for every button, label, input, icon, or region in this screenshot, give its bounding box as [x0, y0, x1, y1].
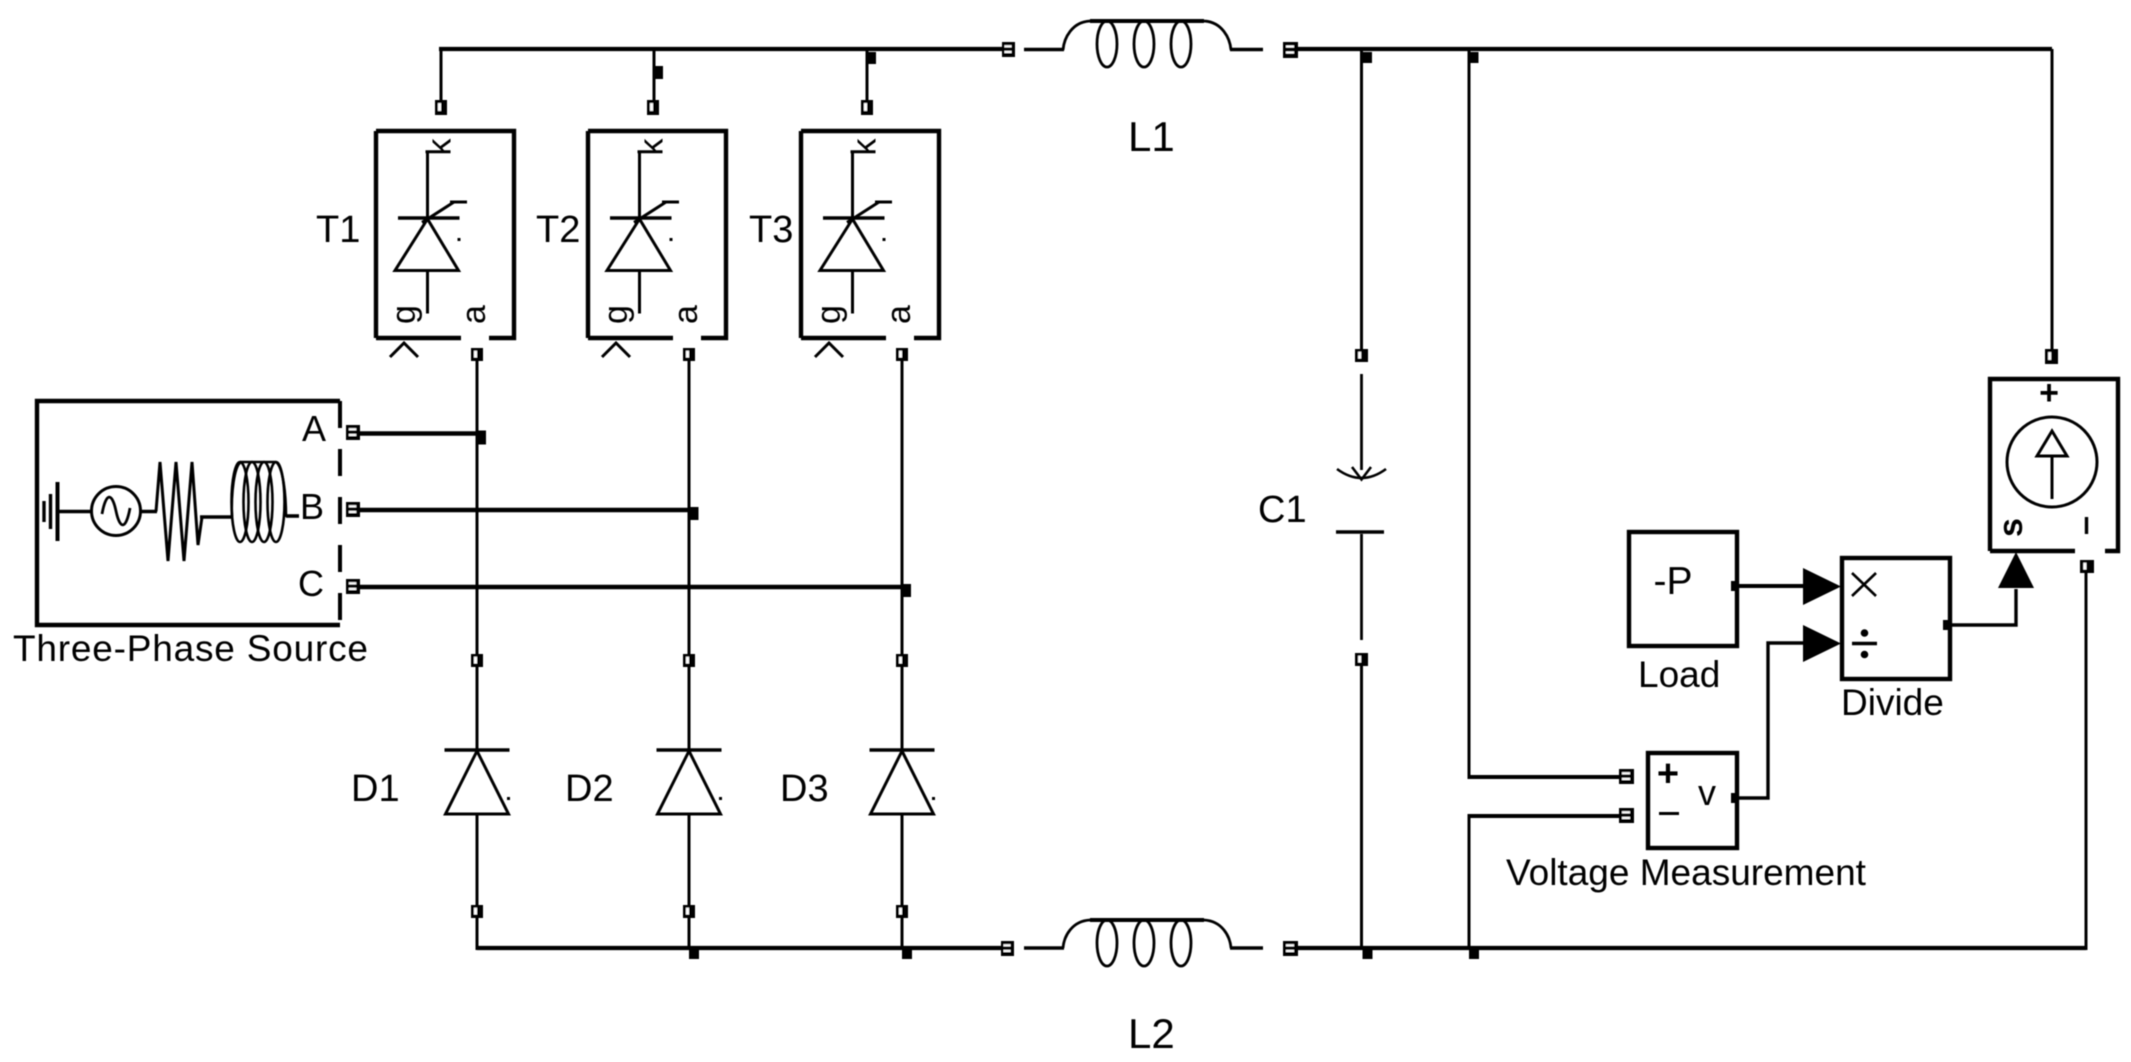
wire VM plus branch vertical: [1468, 51, 1471, 777]
wire bottom rail left segment: [477, 946, 1002, 950]
AC source circle: [92, 487, 141, 536]
inductor L1 right port: [1283, 42, 1298, 58]
controlled current source block: [1990, 374, 2118, 551]
wire VM plus branch horizontal: [1468, 775, 1620, 779]
node junction dot A: [477, 431, 486, 445]
svg-text:C1: C1: [1258, 489, 1307, 531]
svg-text:g: g: [385, 305, 423, 324]
wire bottom rail right segment: [1298, 946, 2086, 950]
three-phase source dashed right edge: [338, 401, 342, 625]
svg-text:+: +: [1657, 753, 1679, 795]
thyristor T3 top port: [861, 100, 873, 115]
wire top rail left segment: [439, 47, 1002, 51]
svg-text:Three-Phase Source: Three-Phase Source: [13, 628, 369, 669]
wire T3 top drop: [866, 49, 869, 100]
svg-text:a: a: [880, 305, 918, 324]
node junction dot bottom D3: [902, 948, 912, 959]
node junction dot bottom D2: [689, 948, 699, 959]
svg-text:D2: D2: [565, 768, 614, 810]
voltage measurement minus port: [1619, 808, 1634, 823]
wire phase B: [360, 508, 689, 512]
AC sine wave: [102, 497, 130, 525]
arrow into current source s input: [1998, 552, 2034, 588]
node junction dot VM top rail: [1470, 52, 1479, 63]
svg-text:g: g: [810, 305, 848, 324]
source port B: [346, 502, 360, 517]
svg-text:D3: D3: [780, 768, 829, 810]
node junction dot B: [689, 507, 699, 520]
svg-text:a: a: [455, 305, 493, 324]
thyristor T1 top port: [435, 100, 447, 115]
wire D3 to bottom rail: [901, 918, 904, 950]
wire D1 to bottom rail: [476, 918, 479, 950]
diode D2 top port: [683, 654, 695, 667]
arrow into divide divide input: [1803, 625, 1841, 662]
svg-text:a: a: [667, 305, 705, 324]
diode D2 bottom port: [683, 905, 695, 918]
inductor L2 coil: [1063, 920, 1231, 966]
arrow into divide x input: [1803, 568, 1841, 605]
svg-text:+: +: [2039, 374, 2059, 412]
thyristor T1: [376, 131, 514, 361]
inductor L1 left port: [1002, 42, 1015, 57]
node junction dot bottom C1: [1363, 948, 1373, 959]
node junction dot C: [902, 584, 911, 597]
svg-text:C: C: [298, 563, 324, 604]
wire drop to current source + port: [2051, 49, 2054, 349]
resistor zigzag: [156, 462, 202, 561]
svg-text:T2: T2: [536, 209, 580, 251]
diode D3: [870, 667, 936, 905]
wire VM minus branch horizontal: [1468, 814, 1620, 818]
wire bottom rail up to current source - port: [2085, 573, 2088, 950]
wire top rail right segment: [1298, 47, 2052, 51]
wire resistor to coil: [200, 515, 233, 519]
svg-text:T1: T1: [316, 209, 360, 251]
capacitor C1 bottom port: [1355, 653, 1368, 666]
diode D1 top port: [471, 654, 483, 667]
inductor L1 left lead wire: [1024, 48, 1064, 52]
wire AC to resistor: [141, 510, 158, 514]
diode D1: [445, 667, 511, 905]
svg-text:g: g: [597, 305, 635, 324]
wire D2 to bottom rail: [688, 918, 691, 950]
svg-text:-P: -P: [1654, 560, 1693, 603]
node junction dot bottom VM: [1469, 948, 1479, 959]
current source minus port: [2080, 560, 2094, 573]
node junction dot T3 top: [868, 52, 877, 64]
thyristor T2: [588, 131, 726, 361]
diode D2: [657, 667, 723, 905]
inductor L2 right lead wire: [1230, 946, 1263, 950]
inductor L1 right lead wire: [1230, 48, 1263, 52]
wire T2 a to D2: [688, 360, 691, 655]
svg-text:v: v: [1698, 772, 1716, 813]
svg-text:A: A: [302, 408, 326, 449]
wire ground to AC: [58, 510, 93, 514]
wire phase C: [360, 585, 902, 589]
wire C1 top drop: [1360, 51, 1363, 349]
capacitor C1: [1336, 374, 1386, 640]
source inner coil: [232, 462, 287, 542]
wire load to divide: [1739, 584, 1804, 588]
node junction dot C1 top rail: [1363, 52, 1372, 63]
svg-text:T3: T3: [749, 209, 793, 251]
inductor L2 left lead wire: [1024, 946, 1064, 950]
svg-text:Divide: Divide: [1841, 682, 1944, 723]
source port C: [346, 579, 360, 594]
svg-text:Voltage Measurement: Voltage Measurement: [1506, 852, 1867, 893]
svg-text:L1: L1: [1128, 113, 1175, 160]
wire T3 a to D3: [901, 360, 904, 655]
svg-text:D1: D1: [351, 768, 400, 810]
wire VM minus branch vertical: [1468, 816, 1471, 950]
node junction dot T2 top: [655, 66, 664, 79]
svg-text:B: B: [300, 486, 324, 527]
wire divide output to current source s: [1950, 589, 2016, 625]
inductor L1 coil: [1063, 21, 1231, 67]
diode D1 bottom port: [471, 905, 483, 918]
wire phase A: [360, 431, 477, 435]
svg-text:Load: Load: [1638, 654, 1720, 695]
thyristor T2 top port: [647, 100, 659, 115]
inductor L2 right port: [1283, 941, 1298, 956]
ground: [44, 482, 58, 541]
load block P: [1629, 532, 1739, 646]
diode D3 top port: [896, 654, 908, 667]
svg-text:s: s: [1992, 518, 2030, 537]
wire coil to B edge: [286, 514, 299, 518]
wire C1 bottom drop: [1360, 666, 1363, 948]
svg-text:L2: L2: [1128, 1010, 1175, 1057]
three-phase source block box: [37, 401, 340, 625]
wire vm output to divide: [1737, 643, 1804, 798]
wire T2 top drop: [653, 49, 656, 100]
wire T1 top drop: [440, 47, 443, 100]
inductor L2 left port: [1001, 941, 1014, 956]
current source top port: [2045, 349, 2058, 364]
diode D3 bottom port: [896, 905, 908, 918]
voltage measurement block U1: [1648, 753, 1739, 848]
capacitor C1 top port: [1355, 349, 1368, 362]
voltage measurement plus port: [1619, 769, 1634, 784]
source port A: [346, 425, 360, 440]
wire T1 a to D1: [476, 360, 479, 655]
divide block: [1842, 558, 1951, 679]
thyristor T3: [801, 131, 939, 361]
